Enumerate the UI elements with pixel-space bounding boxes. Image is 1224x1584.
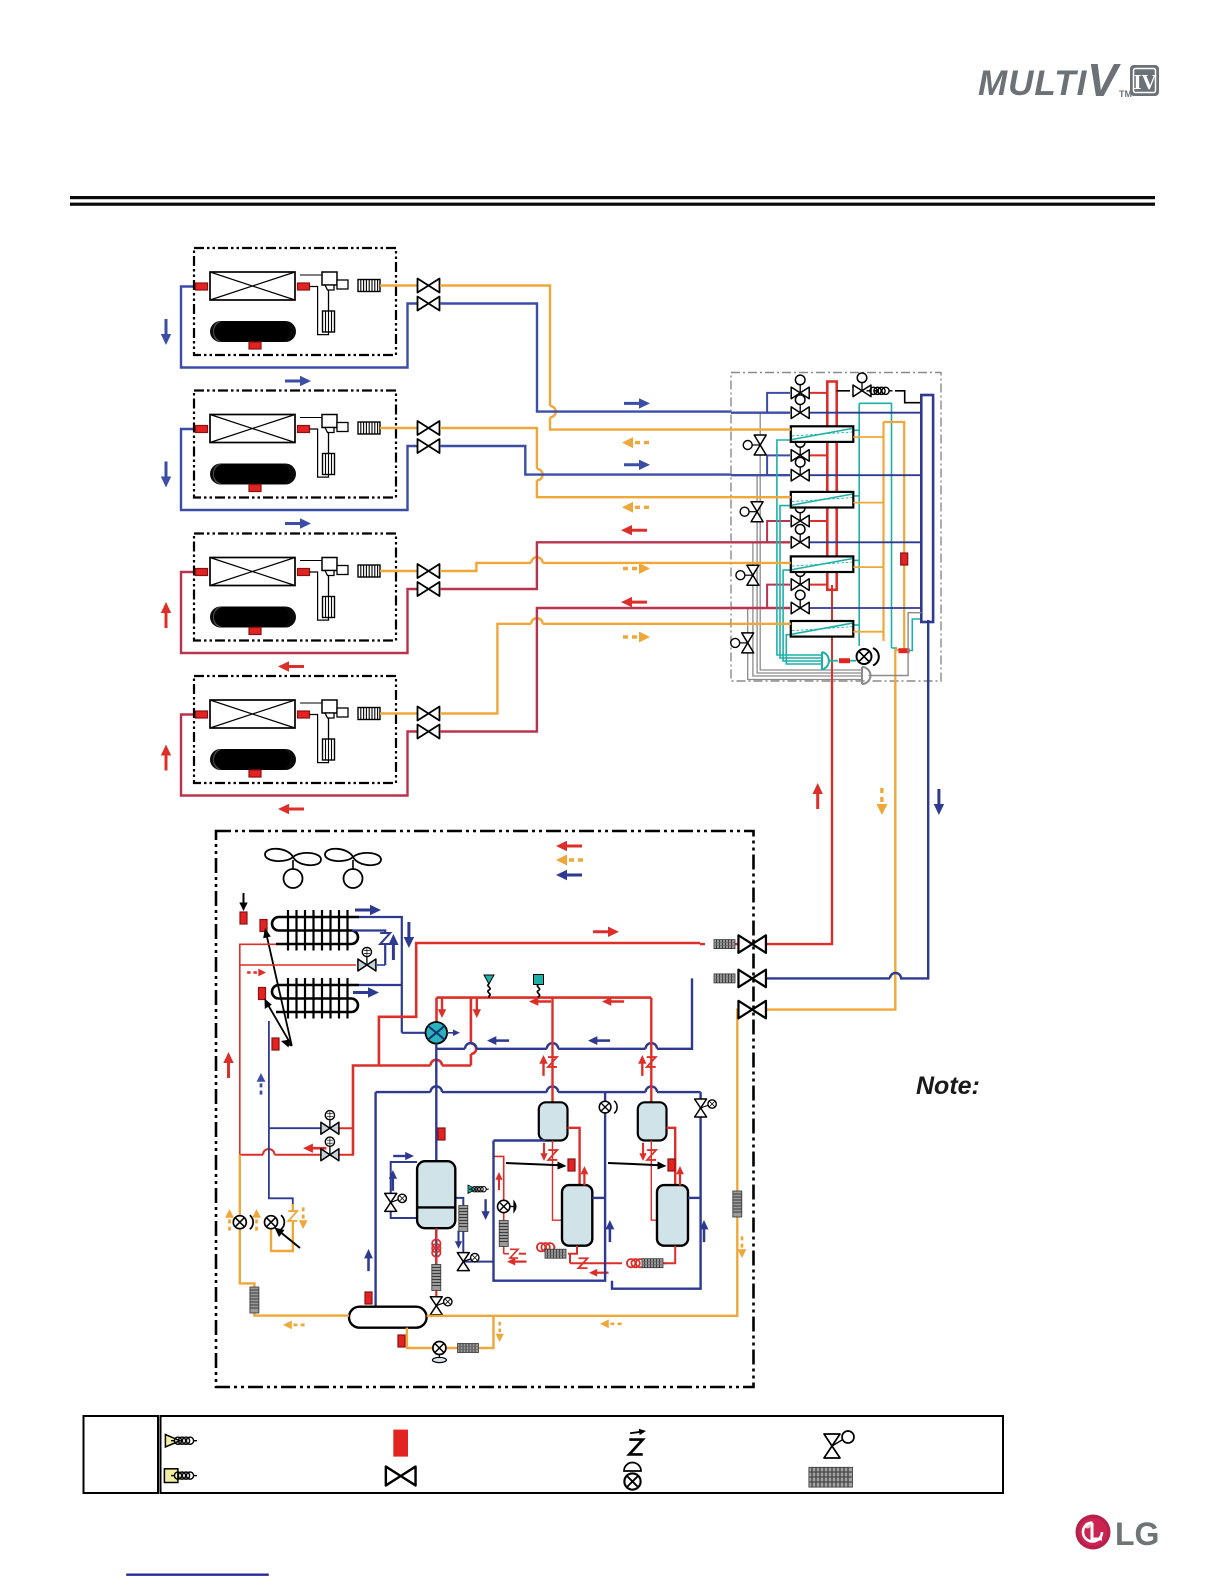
svg-text:Note:: Note: bbox=[916, 1072, 980, 1100]
svg-text:IV: IV bbox=[1133, 70, 1156, 94]
svg-text:LG: LG bbox=[1115, 1516, 1159, 1552]
svg-text:MULTI: MULTI bbox=[978, 64, 1088, 103]
svg-text:V: V bbox=[1087, 54, 1121, 106]
